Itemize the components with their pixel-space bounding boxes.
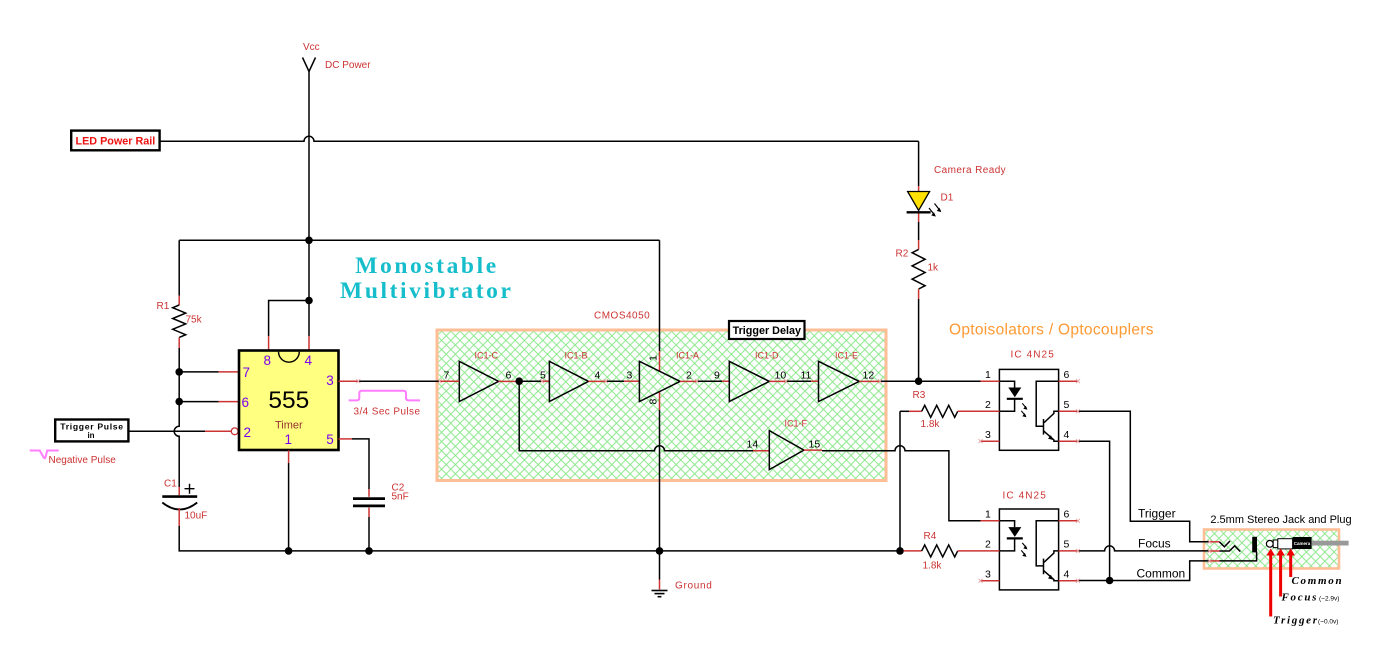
- svg-text:11: 11: [801, 369, 812, 381]
- svg-text:Vcc: Vcc: [303, 42, 320, 53]
- svg-text:R1: R1: [157, 301, 170, 312]
- stub pin 4 of 555: [308, 336, 310, 351]
- opto2 pin labels: [985, 509, 1070, 581]
- stub pin 1: [288, 450, 290, 463]
- wire: D1 to R2: [918, 222, 920, 240]
- jack sleeve contact: [1219, 552, 1256, 561]
- stub below D1: [918, 214, 920, 223]
- wire: C1 down to bottom rail corner: [179, 526, 903, 551]
- stub below R1: [178, 338, 180, 349]
- stub opto1 pin2: [981, 410, 1000, 412]
- negative pulse waveform: [30, 451, 59, 459]
- stub opto1 pin1: [981, 380, 1000, 382]
- wire: to IC1-D: [697, 380, 722, 382]
- wire: opto2 pin5 Focus output with hop: [1078, 546, 1210, 551]
- wire: IC1-F output right with hop over R3 drop, then down to opto2 pin1 row: [822, 446, 981, 521]
- svg-text:Focus: Focus: [1138, 537, 1171, 551]
- LED Power Rail label box: [71, 131, 159, 151]
- wire: top rail y=240.3 from left rail to x=659.5: [179, 239, 659, 241]
- wire: IC1-E output to opto1 pin1: [880, 380, 981, 382]
- opto1 pin labels: [985, 369, 1070, 441]
- wire: vertical rail continues down to ground rail: [659, 410, 661, 551]
- stub opto2 pin2: [981, 550, 1000, 552]
- wire: left rail x=179.2 (down to R1): [178, 240, 180, 295]
- svg-text:1: 1: [985, 509, 991, 521]
- svg-text:2.5mm Stereo Jack and Plug: 2.5mm Stereo Jack and Plug: [1210, 514, 1351, 526]
- svg-text:8: 8: [648, 399, 660, 405]
- wire: pin3 to CMOS box: [358, 380, 439, 382]
- red arrow to Common: [1287, 549, 1295, 578]
- svg-text:1: 1: [648, 355, 660, 361]
- svg-text:Timer: Timer: [275, 420, 303, 432]
- svg-text:7: 7: [243, 365, 251, 380]
- wire: common node to jack: [1110, 561, 1210, 581]
- svg-text:2: 2: [244, 425, 252, 440]
- buffer IC1-C: [440, 361, 520, 401]
- svg-text:R2: R2: [896, 249, 909, 260]
- svg-text:Camera Ready: Camera Ready: [934, 165, 1006, 176]
- svg-text:4: 4: [1064, 429, 1070, 441]
- svg-text:Optoisolators / Optocouplers: Optoisolators / Optocouplers: [949, 321, 1154, 338]
- svg-text:in: in: [87, 431, 94, 440]
- stub IC1-B input: [542, 380, 549, 382]
- resistor R4 on bottom rail: [904, 550, 922, 552]
- svg-text:CMOS4050: CMOS4050: [594, 311, 650, 322]
- wire: R3 left drop to bottom rail: [899, 411, 901, 551]
- optocoupler U2 4N25 (upper): [999, 369, 1058, 450]
- stub IC1-E input: [811, 380, 819, 382]
- svg-text:1.8k: 1.8k: [921, 419, 941, 430]
- svg-text:Common: Common: [1292, 575, 1344, 587]
- wire: pin1 down to bottom rail: [288, 463, 290, 551]
- red arrow to Focus: [1276, 549, 1284, 597]
- svg-text:4: 4: [1064, 569, 1070, 581]
- plug handle with Camera label: [1293, 537, 1312, 549]
- svg-text:C1: C1: [164, 479, 177, 490]
- svg-text:IC1-E: IC1-E: [835, 351, 858, 361]
- wire: down to ground symbol: [659, 551, 661, 580]
- stub IC1-D input: [722, 380, 729, 382]
- svg-text:Focus: Focus: [1281, 592, 1319, 604]
- plug body: [1278, 539, 1293, 549]
- wire: opto1 pin4 down to common node: [1078, 441, 1110, 580]
- svg-text:Ground: Ground: [675, 581, 713, 592]
- junction dot common node: [1106, 577, 1114, 585]
- svg-text:D1: D1: [941, 193, 954, 204]
- stub opto2 pin4: [1059, 580, 1078, 582]
- svg-text:Trigger: Trigger: [1273, 615, 1319, 627]
- svg-text:IC 4N25: IC 4N25: [1011, 350, 1055, 361]
- svg-text:12: 12: [863, 369, 875, 381]
- Vcc power symbol: [303, 58, 316, 72]
- jack sleeve bar: [1252, 537, 1257, 553]
- Trigger Delay label box: [729, 321, 805, 339]
- svg-text:Trigger: Trigger: [1138, 507, 1176, 521]
- junction dot left rail pin7: [175, 368, 183, 376]
- stub pin 6: [219, 401, 239, 403]
- svg-text:IC1-D: IC1-D: [755, 351, 779, 361]
- stub opto1 pin5: [1059, 410, 1078, 412]
- svg-text:2: 2: [985, 539, 991, 551]
- wire: to IC1-A: [606, 380, 624, 382]
- stub opto2 pin6 (NC): [1059, 520, 1078, 522]
- wire: trigger pulse to pin 2: [129, 430, 205, 432]
- svg-text:75k: 75k: [186, 315, 203, 326]
- wire: LED power rail horizontal with hop over Vcc line: [159, 136, 918, 141]
- svg-text:1.8k: 1.8k: [923, 561, 943, 572]
- Trigger Pulse in label box: [55, 420, 128, 442]
- 555 pin number labels: [242, 353, 334, 447]
- svg-text:IC1-A: IC1-A: [676, 351, 699, 361]
- svg-text:555: 555: [268, 387, 309, 414]
- stub IC1-A input: [624, 380, 639, 382]
- svg-text:4: 4: [595, 369, 601, 381]
- junction dot pin4/pin8 branch: [305, 297, 313, 305]
- svg-text:6: 6: [1064, 509, 1070, 521]
- svg-text:1: 1: [285, 432, 293, 447]
- svg-text:5: 5: [326, 432, 334, 447]
- Monostable Multivibrator title: [340, 253, 513, 304]
- resistor R1: [173, 305, 186, 337]
- svg-text:(~2.9v): (~2.9v): [1319, 596, 1339, 603]
- wire: feedback from IC1-C output down and right with hop: [519, 381, 753, 451]
- svg-text:10uF: 10uF: [185, 511, 208, 522]
- stub opto2 pin3 (NC): [981, 580, 1000, 582]
- svg-text:8: 8: [264, 353, 272, 368]
- junction dot IC1-C output: [515, 377, 523, 385]
- stub below R2: [918, 289, 920, 299]
- svg-text:6: 6: [1064, 369, 1070, 381]
- svg-text:IC1-B: IC1-B: [565, 351, 588, 361]
- svg-text:IC 4N25: IC 4N25: [1003, 491, 1047, 502]
- wire: left rail continuing down with hop over trigger wire: [174, 348, 179, 487]
- junction dot left rail pin6: [175, 398, 183, 406]
- stereo jack hatched region box: [1204, 530, 1339, 569]
- buffer IC1-D: [729, 361, 786, 401]
- svg-text:DC Power: DC Power: [325, 60, 371, 71]
- junction dot ground rail: [656, 547, 664, 555]
- LED D1: [907, 192, 942, 217]
- wire: to IC1-B: [519, 380, 542, 382]
- svg-text:2: 2: [686, 369, 692, 381]
- junction dot Vcc top rail: [305, 237, 313, 245]
- stub opto2 pin5: [1059, 550, 1078, 552]
- svg-text:LED Power Rail: LED Power Rail: [76, 135, 156, 147]
- wire: pin8 branch from node at (309,300.5): [269, 301, 309, 337]
- red arrow to Trigger: [1267, 549, 1275, 617]
- wire: opto1 pin5 to Trigger output: [1078, 411, 1210, 542]
- svg-text:IC1-C: IC1-C: [475, 351, 499, 361]
- wire: opto2 pin4 to common node: [1078, 580, 1110, 582]
- svg-text:1: 1: [985, 369, 991, 381]
- resistor R2: [912, 249, 925, 289]
- svg-text:3: 3: [985, 429, 991, 441]
- stub opto1 pin4: [1059, 440, 1078, 442]
- CMOS4050 hatched region box: [437, 330, 886, 481]
- stub above D1: [918, 186, 920, 191]
- svg-text:Monostable: Monostable: [355, 253, 499, 279]
- plug neck: [1273, 540, 1278, 548]
- svg-text:9: 9: [714, 369, 720, 381]
- plug tip: [1266, 540, 1273, 547]
- optocoupler U3 4N25 (lower): [999, 509, 1058, 590]
- svg-text:Camera: Camera: [1294, 541, 1311, 546]
- svg-text:4: 4: [305, 353, 313, 368]
- buffer IC1-E: [819, 361, 881, 401]
- svg-text:1k: 1k: [928, 263, 940, 274]
- junction dot pin1 bottom rail: [285, 547, 293, 555]
- svg-text:15: 15: [809, 439, 821, 451]
- svg-text:Multivibrator: Multivibrator: [340, 278, 513, 304]
- jack tip contact: [1219, 541, 1230, 547]
- svg-text:(~0.0v): (~0.0v): [1318, 619, 1338, 626]
- svg-text:3: 3: [326, 373, 334, 388]
- stub pin 8 of IC1-A (vertical): [659, 392, 661, 410]
- pin 2 inversion bubble: [231, 428, 238, 435]
- stub pin 1 of IC1-A (vertical): [659, 351, 661, 371]
- svg-text:3/4 Sec Pulse: 3/4 Sec Pulse: [354, 407, 421, 418]
- stub pin 7: [219, 371, 239, 373]
- svg-text:Trigger Delay: Trigger Delay: [733, 325, 801, 337]
- stub opto2 pin1: [981, 520, 1000, 522]
- wire: to pin 6: [179, 401, 218, 403]
- buffer IC1-F: [769, 431, 822, 470]
- IC U1 555 timer body: [239, 351, 339, 451]
- svg-text:6: 6: [506, 369, 512, 381]
- svg-text:3: 3: [627, 369, 633, 381]
- stub opto1 pin3 (NC): [981, 440, 1000, 442]
- wire: vertical rail x=659.5 from top rail into IC1-A pin1: [659, 240, 661, 351]
- junction dot R2 bottom: [915, 377, 923, 385]
- stub pin 8 of 555: [268, 336, 270, 351]
- 3/4 sec pulse waveform: [349, 391, 420, 401]
- svg-text:14: 14: [747, 439, 759, 451]
- svg-text:2: 2: [985, 399, 991, 411]
- svg-text:Common: Common: [1137, 567, 1186, 581]
- svg-text:5: 5: [1064, 399, 1070, 411]
- wire: Vcc vertical down to pin 4 of 555: [308, 72, 310, 337]
- stub above R1: [178, 296, 180, 306]
- svg-text:R4: R4: [924, 531, 937, 542]
- wire: to pin 7: [179, 371, 218, 373]
- svg-text:R3: R3: [913, 390, 926, 401]
- stub above ground: [659, 580, 661, 590]
- svg-text:Negative Pulse: Negative Pulse: [49, 455, 117, 466]
- plug cable: [1312, 541, 1349, 546]
- stub IC1-F input: [753, 450, 769, 452]
- buffer IC1-B: [549, 361, 606, 401]
- wire: R2 down to main row junction: [918, 299, 920, 381]
- stub opto1 pin6 (NC): [1059, 380, 1078, 382]
- svg-text:5: 5: [1064, 539, 1070, 551]
- wire: to IC1-E: [786, 380, 811, 382]
- svg-text:6: 6: [242, 395, 250, 410]
- wire: pin 5 over to C2: [352, 439, 369, 489]
- svg-text:7: 7: [444, 369, 450, 381]
- stub pin 5: [339, 438, 353, 440]
- pale x marks at stub ends: [356, 379, 1211, 583]
- capacitor C2: [353, 489, 385, 551]
- wire: LED rail corner down to D1: [918, 141, 920, 186]
- stub above R2: [918, 240, 920, 249]
- buffer IC1-A: [639, 361, 697, 401]
- resistor R3 with feed wire from x=900: [900, 410, 909, 412]
- ground symbol: [652, 591, 668, 597]
- junction dot R3 drop / bottom rail: [896, 547, 904, 555]
- stub pin 3: [339, 380, 359, 382]
- svg-text:IC1-F: IC1-F: [785, 419, 808, 429]
- stub pin2 wire: [205, 430, 231, 432]
- jack contact stubs: [1210, 541, 1220, 543]
- svg-text:5nF: 5nF: [392, 492, 409, 503]
- junction dot C2 bottom rail: [365, 547, 373, 555]
- svg-text:3: 3: [985, 569, 991, 581]
- jack ring contact: [1219, 546, 1240, 552]
- capacitor C1: [162, 484, 197, 526]
